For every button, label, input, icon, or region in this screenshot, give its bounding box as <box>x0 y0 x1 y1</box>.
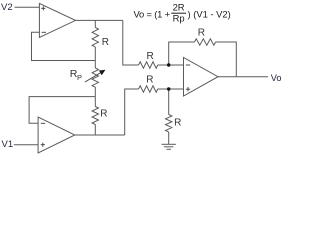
wire V2 lead <box>15 6 40 8</box>
svg-text:R: R <box>100 109 107 120</box>
op-amp U2 <box>38 117 75 153</box>
wire A1 inverting feedback loop <box>32 32 96 60</box>
resistor R3 <box>139 62 158 68</box>
resistor R5 <box>166 115 172 132</box>
resistor R4 <box>139 86 158 92</box>
svg-text:2R: 2R <box>173 2 185 13</box>
formula fraction bar <box>171 12 186 14</box>
op-amp U1 <box>39 3 75 37</box>
svg-text:P: P <box>77 73 82 82</box>
svg-text:R: R <box>102 37 109 48</box>
svg-text:R: R <box>146 74 153 85</box>
svg-text:V1: V1 <box>2 139 14 150</box>
wire U3 output to Vo <box>218 76 268 78</box>
wire plus node down to R5 <box>168 89 170 115</box>
node plus junction dot <box>167 87 170 90</box>
op-amp U3 <box>184 58 219 97</box>
formula Vo = (1 + 2R/Rp)(V1 - V2) <box>134 2 231 24</box>
svg-text:) (V1 - V2): ) (V1 - V2) <box>188 8 231 19</box>
ground <box>162 144 176 149</box>
wire A2 output up to R4 <box>125 89 139 135</box>
svg-text:Vo: Vo <box>271 73 282 83</box>
node minus junction dot <box>167 63 170 66</box>
resistor R1 <box>92 28 98 47</box>
wire U3 feedback right leg <box>216 42 237 77</box>
potentiometer Rp wiper arrow <box>85 70 106 82</box>
wire A1 output to node A <box>76 19 123 21</box>
wire A2 inverting feedback loop <box>29 97 95 124</box>
potentiometer Rp <box>92 68 98 87</box>
wire node C to R2 <box>94 97 96 107</box>
wire A1 output down to R3 <box>123 20 139 65</box>
wire V1 lead <box>14 144 38 146</box>
wire U3 feedback left leg <box>169 42 195 65</box>
svg-text:R: R <box>198 27 205 38</box>
wire A2 output <box>75 134 125 136</box>
wire node B to Rp <box>94 61 96 69</box>
wire chain top segment <box>94 20 96 27</box>
wire R4 to U3 plus input <box>158 88 184 90</box>
wire R1 to node B <box>94 47 96 61</box>
resistor R6 feedback <box>195 39 216 45</box>
wire R3 to U3 minus input <box>158 64 184 66</box>
wire R5 to ground <box>168 132 170 144</box>
svg-text:Vo = (1 +: Vo = (1 + <box>134 8 171 19</box>
wire R2 to A2 output node <box>94 125 96 136</box>
resistor R2 <box>92 107 98 125</box>
svg-text:R: R <box>174 117 181 128</box>
svg-text:R: R <box>147 51 154 62</box>
svg-text:V2: V2 <box>1 2 13 13</box>
svg-text:Rp: Rp <box>173 13 185 24</box>
wire Rp to node C <box>94 87 96 97</box>
